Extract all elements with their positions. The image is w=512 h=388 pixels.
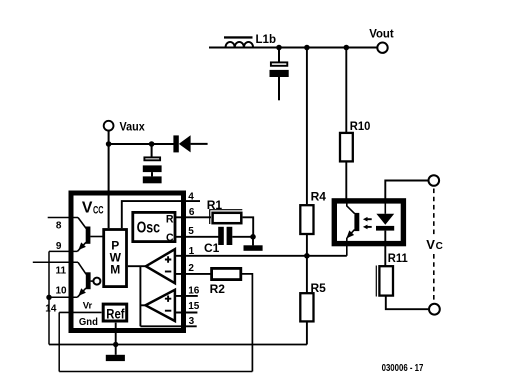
wire LED anode to Vc terminal [385,181,428,201]
wire R2 right down to Vr rail [241,274,253,372]
label VCC [82,200,104,217]
svg-text:R10: R10 [350,119,371,133]
node junction dot I [113,342,118,347]
wire top output rail [209,47,377,49]
wire pin 9 to ground rail vertical [48,251,50,344]
node junction dot F [149,141,155,147]
block Osc [133,212,175,244]
node junction dot G [250,234,256,240]
wire R4 branch from top rail [306,48,308,205]
terminal Vout [369,27,394,53]
wire ground rail horizontal [49,344,307,346]
wire R1 right to node G [243,217,254,237]
svg-text:V: V [426,237,435,252]
svg-text:Vout: Vout [369,27,394,41]
wire R10 branch from top rail [345,48,347,133]
ground bar main [106,355,125,361]
resistor R11 [376,251,408,297]
node junction dot C [344,45,350,51]
wire R11 to Vc bottom terminal [386,296,428,309]
wire pin 2 comp1 minus to R2 [175,273,213,275]
svg-text:14: 14 [45,304,57,315]
inductor L1b [224,32,276,48]
wire pin 8 [48,217,78,219]
wire R10 to optocoupler [345,161,347,201]
svg-text:11: 11 [56,266,67,277]
svg-text:8: 8 [56,220,62,231]
wire comparator 2 tip stub [140,304,145,306]
capacitor Vaux electrolytic stack [143,144,162,183]
svg-text:L1b: L1b [256,32,277,46]
IC U1 outline [71,193,184,331]
svg-text:9: 9 [56,241,62,252]
capacitor output electrolytic [270,48,289,100]
svg-text:5: 5 [188,226,194,237]
wire Vc dashed lower [433,254,435,303]
node junction dot A [276,45,282,51]
transistor Q2 [77,262,100,297]
svg-text:030006 - 17: 030006 - 17 [382,363,424,374]
resistor R4 [300,189,326,234]
svg-text:3: 3 [189,316,195,327]
wire pin 11 [33,261,78,263]
resistor R10 [340,119,371,162]
svg-text:Vaux: Vaux [120,120,145,134]
wire R5 to ground rail [306,321,308,344]
svg-text:2: 2 [188,263,194,274]
wire pin 10 [49,296,77,298]
wire pin 3 [140,325,196,327]
node junction dot B [304,45,310,51]
wire Vc dashed upper [433,189,435,236]
svg-text:10: 10 [56,286,68,297]
node junction dot H [46,295,51,300]
svg-text:15: 15 [188,301,200,312]
transistor Q1 [77,218,103,252]
transistor opto phototransistor [346,199,359,256]
svg-text:Ref: Ref [106,306,125,321]
wire R4 to node D [306,234,308,256]
diode D1 [173,135,207,152]
wire pin 15 comp2 minus [175,312,198,314]
wire pin 9 [49,250,77,252]
ground bar near C1 [244,245,263,251]
wire comparator bus vertical [139,266,141,326]
svg-text:C: C [436,241,443,252]
svg-text:C1: C1 [204,241,220,255]
svg-text:Gnd: Gnd [79,317,98,328]
wire node G down [252,237,254,246]
wire pin 4 from PWM top [122,201,200,228]
svg-text:R2: R2 [210,282,226,296]
svg-text:6: 6 [189,207,195,218]
wire node D to R5 [306,256,308,293]
terminal Vc top [429,175,440,186]
wire Vaux horizontal [109,143,174,145]
resistor R5 [300,281,326,321]
svg-text:Osc: Osc [137,220,161,237]
label Vc [426,237,443,252]
light arrow 1 [363,217,372,222]
wire Vr rail horizontal [59,371,252,373]
wire Vaux vertical into PWM [108,131,110,228]
svg-text:R11: R11 [388,251,408,265]
op-amp comparator 2 [146,290,175,321]
svg-text:V: V [82,200,93,217]
resistor R2 [210,268,241,296]
svg-text:CC: CC [93,205,104,217]
wire pin 6 Osc R to R1 [175,216,211,218]
wire pin 14 down [58,312,60,371]
wire pin 14 to Ref [59,311,101,313]
wire Ref to ground [115,323,117,355]
node junction dot E [106,141,112,147]
svg-text:R: R [166,214,174,226]
svg-text:M: M [110,263,120,277]
block PWM [104,230,127,287]
svg-text:C: C [166,232,174,244]
terminal Vc bottom [429,304,440,315]
wire pin 5 Osc C to C1 [175,236,219,238]
op-amp comparator 1 [146,249,175,283]
node junction dot D [304,253,310,259]
wire pin 1 rail comp1 plus to optocoupler emitter [175,255,347,257]
svg-text:4: 4 [188,192,194,203]
svg-text:16: 16 [188,285,200,296]
svg-text:R4: R4 [311,189,327,203]
capacitor C1 [204,227,232,255]
svg-text:R5: R5 [311,281,327,295]
optocoupler U2 box [334,201,403,244]
diode opto LED [376,199,394,266]
svg-text:Vr: Vr [83,301,93,312]
svg-text:R1: R1 [207,198,223,212]
wire pin 16 comp2 plus [175,295,198,297]
light arrow 2 [363,225,372,230]
terminal Vaux [104,120,145,134]
svg-text:1: 1 [189,246,195,257]
wire PWM output to comparator tips [128,265,146,267]
wire C1 right to node G [232,236,253,238]
resistor R1 [207,198,243,224]
block Ref [103,304,127,321]
